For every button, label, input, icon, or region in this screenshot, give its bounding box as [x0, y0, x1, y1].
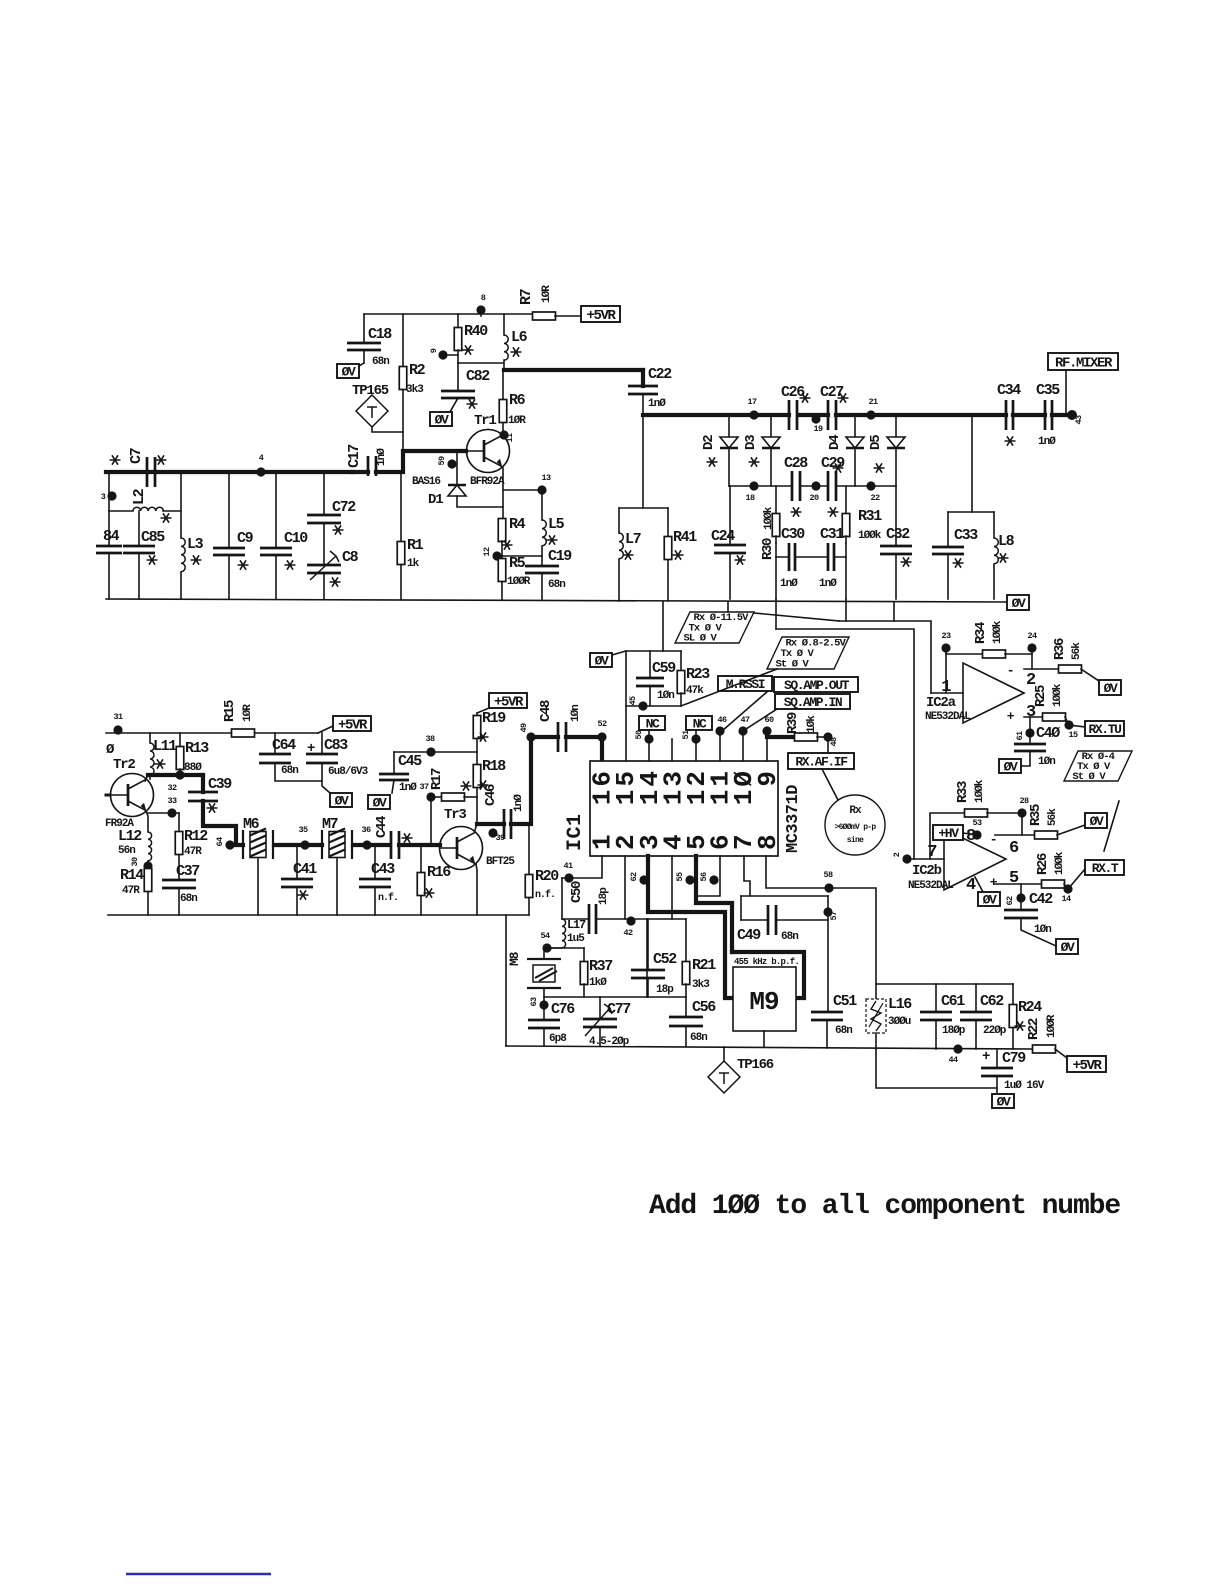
svg-text:D4: D4 [827, 435, 843, 450]
capacitor C48 10n (series, thick wire to IC1 pin16) [531, 700, 602, 761]
svg-text:R26: R26 [1035, 853, 1051, 875]
node 48 [823, 732, 839, 753]
svg-text:R24: R24 [1018, 999, 1042, 1016]
wire: mid +5VR rail [106, 726, 333, 733]
svg-text:R40: R40 [464, 323, 488, 340]
svg-text:1Øn: 1Øn [1038, 756, 1055, 768]
svg-text:L7: L7 [625, 531, 641, 548]
wire: C30/C31 line [776, 543, 846, 599]
inductor L2 [109, 472, 181, 523]
svg-text:3: 3 [101, 492, 106, 502]
svg-text:+HV: +HV [938, 826, 959, 841]
svg-text:C30: C30 [781, 526, 805, 543]
svg-text:12: 12 [482, 547, 492, 557]
NC box (pin 14) [639, 716, 665, 761]
node 8 [476, 293, 485, 316]
svg-text:C49: C49 [737, 927, 761, 944]
svg-text:IC1: IC1 [564, 813, 587, 851]
svg-text:+5VR: +5VR [338, 717, 368, 733]
wire: IC1 pin 3 (thick) [648, 856, 733, 998]
svg-text:13: 13 [541, 473, 551, 483]
svg-text:R2: R2 [409, 362, 426, 379]
resistor R22 100R [1026, 1014, 1067, 1058]
resistor R21 3k3 [682, 919, 716, 997]
resistor R13 [176, 733, 209, 775]
inductor L16 300u (shielded) [866, 996, 912, 1049]
wire: L16 bottom to 0V [876, 1049, 997, 1088]
NC box (pin 12) [686, 716, 712, 761]
node 43 [1067, 410, 1084, 425]
svg-text:23: 23 [941, 631, 951, 641]
svg-text:ØV: ØV [342, 365, 356, 380]
0V box (C42) [1056, 939, 1078, 955]
diode D4 [827, 415, 864, 486]
svg-text:ØV: ØV [1104, 681, 1118, 696]
svg-text:BFT25: BFT25 [486, 856, 515, 868]
svg-text:1Øn: 1Øn [1034, 924, 1051, 936]
node 37 [419, 782, 442, 845]
label L10 fragment [106, 742, 115, 758]
svg-text:SQ.AMP.OUT: SQ.AMP.OUT [784, 678, 850, 693]
node 2 [892, 852, 944, 863]
svg-text:38: 38 [425, 734, 435, 744]
svg-text:D3: D3 [743, 435, 759, 450]
wire: R31 column to IC2a input [839, 599, 931, 693]
resistor R19 [473, 710, 506, 752]
svg-text:64: 64 [215, 837, 225, 847]
svg-text:NE532DAL: NE532DAL [908, 880, 954, 892]
wire: IC1 pin 4 [671, 856, 673, 919]
wire: IC1 pin 2 [624, 856, 626, 919]
node 22 [866, 481, 880, 503]
svg-text:42: 42 [623, 928, 633, 938]
capacitor C39 (thick path to M6) [188, 775, 243, 845]
0V box (C45) [368, 795, 390, 811]
RX.T box (cut) [1085, 860, 1124, 876]
svg-text:1ØR: 1ØR [541, 285, 553, 303]
svg-text:24: 24 [1027, 631, 1037, 641]
resistor R16 [417, 845, 451, 915]
svg-text:3k3: 3k3 [692, 979, 710, 991]
svg-text:52: 52 [597, 719, 607, 729]
svg-text:1nØ: 1nØ [376, 448, 388, 466]
svg-text:8: 8 [481, 293, 486, 303]
svg-text:R14: R14 [120, 867, 144, 884]
wire: L16/C61/C62 top rail [876, 984, 1013, 1012]
capacitor C64 68n [259, 733, 322, 781]
svg-text:L5: L5 [548, 516, 565, 533]
svg-text:M6: M6 [243, 816, 260, 833]
svg-text:C50: C50 [569, 881, 585, 903]
wire: IC1 pin 5/6 (thick) [696, 856, 732, 952]
test point TP166 [708, 1047, 774, 1093]
svg-text:4: 4 [966, 876, 976, 895]
node 58 [823, 870, 833, 893]
svg-text:R12: R12 [184, 828, 208, 845]
SQ.AMP.OUT box [774, 677, 858, 693]
svg-text:RX.TU: RX.TU [1088, 722, 1121, 737]
capacitor C45 1n0 [379, 752, 422, 794]
transistor Tr1 BFR92A [467, 413, 510, 488]
svg-text:R34: R34 [973, 622, 989, 644]
node 56 [699, 872, 719, 885]
svg-text:62: 62 [1005, 896, 1015, 906]
wire: pin 13 stub [671, 739, 673, 761]
svg-text:1nØ: 1nØ [819, 578, 837, 590]
capacitor C35 (series) [1013, 382, 1072, 448]
svg-text:ØV: ØV [1004, 760, 1018, 775]
tank circuit L7 / R41 [619, 508, 697, 601]
wire: Tr2 collector junction (thick) [145, 775, 203, 781]
capacitor C59 10n [636, 651, 676, 706]
wire: IC1 pin 8 to L16 rail [766, 856, 876, 984]
svg-text:18: 18 [745, 493, 755, 503]
svg-text:63: 63 [529, 997, 539, 1007]
wire: IC2a pin 3 [1024, 716, 1043, 718]
wire: IC1 pin 1 to node 41 [562, 856, 602, 878]
node 30 [130, 857, 153, 871]
svg-text:50: 50 [634, 730, 644, 740]
0V box (R35) [1085, 813, 1107, 829]
svg-text:1ØØk: 1ØØk [1054, 851, 1066, 875]
capacitor C28 (series) [784, 455, 808, 501]
resistor R26 100k [1035, 851, 1085, 889]
svg-text:ØV: ØV [997, 1095, 1011, 1110]
parallelogram callout Rx 0.8-2.5V [681, 637, 849, 706]
node 44 [948, 1044, 962, 1065]
node 49 [519, 723, 536, 742]
node 53 [972, 818, 982, 840]
455 kHz b.p.f. outline (thick) [732, 952, 804, 998]
op-amp IC2a NE532DAL [925, 663, 1036, 724]
svg-text:D2: D2 [701, 435, 717, 450]
SQ.AMP.IN box [746, 694, 850, 729]
M.RSSI box [718, 676, 772, 731]
node 12 [482, 547, 542, 561]
svg-text:M9: M9 [749, 987, 779, 1017]
svg-text:1ØØk: 1ØØk [763, 506, 775, 530]
svg-text:1ØØR: 1ØØR [507, 576, 531, 588]
svg-text:-: - [1007, 663, 1013, 678]
node 64 [215, 837, 235, 850]
svg-text:68n: 68n [781, 931, 798, 943]
wire: bottom ground rail [506, 1046, 1033, 1049]
resistor R6 [499, 370, 526, 434]
resistor R40 [454, 314, 488, 363]
trimmer capacitor C77 4.5-20p [583, 997, 630, 1048]
svg-text:1Øn: 1Øn [570, 705, 582, 722]
0V box (C79) [992, 1094, 1014, 1110]
svg-text:47R: 47R [122, 885, 140, 897]
node 31 [113, 712, 123, 735]
capacitor C72 [307, 472, 356, 565]
resistor R31 100k [842, 486, 882, 543]
test point TP165 [352, 383, 403, 432]
wire: IC2b pin 6 [995, 834, 1035, 836]
RF.MIXER box [1048, 353, 1118, 415]
wire: mid-section ground rail [108, 914, 529, 916]
svg-text:ØV: ØV [435, 413, 449, 428]
svg-text:C45: C45 [398, 753, 422, 770]
svg-text:C29: C29 [821, 455, 845, 472]
svg-text:46: 46 [717, 715, 727, 725]
capacitor C17 (series) [346, 445, 466, 476]
svg-text:56n: 56n [118, 845, 135, 857]
capacitor C30 (series) [780, 526, 805, 590]
inductor L11 [150, 733, 177, 779]
svg-text:1kØ: 1kØ [589, 977, 607, 989]
wire: Tr3 emitter [476, 864, 477, 915]
0V box (C40) [999, 759, 1021, 775]
resistor R20 n.f. [525, 824, 559, 915]
resistor R33 100k (feedback) [930, 779, 1022, 859]
svg-text:88Ø: 88Ø [184, 762, 202, 774]
resistor R23 47k [677, 651, 710, 706]
node 24 [1027, 631, 1037, 669]
capacitor C44 (series) [374, 816, 440, 859]
wire: IC2b pin 5 [995, 883, 1042, 885]
node 45 [628, 696, 648, 711]
0V box (R36) [1099, 680, 1121, 696]
node 3 [101, 491, 117, 502]
svg-text:ØV: ØV [595, 654, 609, 669]
diagonal mark (cut callout) [1104, 801, 1119, 851]
svg-text:C17: C17 [346, 445, 363, 468]
+HV box and pin 8 [933, 825, 977, 846]
svg-text:68n: 68n [281, 765, 298, 777]
svg-text:L8: L8 [998, 533, 1015, 550]
wire: node23 to pin1 line [945, 654, 947, 693]
svg-text:47: 47 [740, 715, 750, 725]
op-amp IC2b NE532DAL [908, 829, 1019, 892]
svg-text:C61: C61 [941, 993, 965, 1010]
svg-text:1Øk: 1Øk [806, 715, 818, 733]
svg-text:62: 62 [629, 872, 639, 882]
svg-text:C8: C8 [342, 549, 359, 566]
node 51 [681, 730, 701, 744]
svg-text:BFR92A: BFR92A [470, 476, 505, 488]
svg-text:6: 6 [1009, 839, 1019, 858]
svg-text:455 kHz b.p.f.: 455 kHz b.p.f. [734, 957, 799, 967]
+5VR box (top) [581, 306, 620, 324]
node 4 [256, 453, 265, 477]
svg-text:30: 30 [130, 857, 140, 867]
svg-text:C83: C83 [324, 737, 348, 754]
wire: diode bias line [729, 485, 896, 487]
svg-text:C43: C43 [371, 861, 395, 878]
0V box (C64/C83) [330, 793, 352, 809]
svg-text:MC3371D: MC3371D [784, 785, 803, 853]
svg-text:1nØ: 1nØ [648, 398, 666, 410]
diode D3 [743, 415, 780, 486]
capacitor C7 (series in antenna line) [106, 448, 368, 487]
svg-text:C82: C82 [466, 368, 490, 385]
svg-text:C28: C28 [784, 455, 808, 472]
svg-text:n.f.: n.f. [378, 892, 398, 904]
svg-text:68n: 68n [690, 1032, 707, 1044]
capacitor C62 220p [960, 993, 1007, 1049]
svg-text:M8: M8 [507, 951, 522, 966]
svg-text:ØV: ØV [373, 796, 387, 811]
node 62b [1005, 893, 1026, 905]
wire: Tr2 emitter [146, 811, 148, 832]
svg-text:L17: L17 [567, 918, 586, 932]
svg-text:ØV: ØV [1012, 596, 1026, 611]
svg-text:1nØ: 1nØ [399, 782, 417, 794]
capacitor C83 6u8/6V3 electrolytic [306, 733, 369, 793]
0V box (pin 15 line) [590, 651, 626, 669]
svg-text:28: 28 [1019, 796, 1029, 806]
svg-text:1k: 1k [407, 558, 420, 570]
svg-text:C44: C44 [374, 816, 390, 838]
svg-text:53: 53 [972, 818, 982, 828]
svg-text:D1: D1 [428, 492, 443, 508]
resistor R37 1k0 [580, 948, 612, 997]
node 63 [529, 997, 549, 1010]
inductor L3 [181, 472, 204, 599]
node 55 [675, 872, 695, 885]
svg-text:TP166: TP166 [737, 1057, 774, 1073]
+5VR box (bottom) [1067, 1056, 1106, 1074]
+5VR box (Tr3) [477, 693, 527, 713]
wire: node 41 to L17/C50 [561, 878, 563, 919]
node 19 [811, 414, 823, 434]
svg-text:>6ØØmV p-p: >6ØØmV p-p [834, 823, 876, 832]
0V box (C82) [430, 412, 452, 428]
node 57 [823, 907, 839, 920]
svg-text:61: 61 [1015, 731, 1025, 741]
svg-text:56k: 56k [1071, 642, 1083, 660]
resistor R7 [518, 285, 581, 320]
node 36 [361, 825, 371, 850]
svg-text:3ØØu: 3ØØu [888, 1016, 911, 1028]
node 28 [1017, 796, 1029, 835]
svg-text:C31: C31 [820, 526, 844, 543]
svg-text:3k3: 3k3 [406, 384, 424, 396]
svg-text:C62: C62 [980, 993, 1004, 1010]
svg-text:1ØR: 1ØR [242, 704, 254, 722]
svg-text:St Ø V: St Ø V [1072, 771, 1106, 783]
svg-text:L3: L3 [187, 536, 204, 553]
svg-text:C24: C24 [711, 528, 735, 545]
svg-text:C22: C22 [648, 366, 672, 383]
svg-text:R6: R6 [509, 392, 526, 409]
svg-text:C48: C48 [538, 700, 554, 722]
svg-text:M7: M7 [322, 816, 338, 833]
svg-text:C79: C79 [1002, 1050, 1026, 1067]
svg-text:C39: C39 [208, 776, 232, 793]
wire: Tr1 emitter [503, 468, 542, 519]
svg-text:22Øp: 22Øp [983, 1025, 1007, 1037]
trimmer capacitor C8 [307, 549, 359, 599]
inductor L17 1u5 [544, 918, 586, 948]
node 11 [499, 430, 515, 442]
node 54 [540, 931, 551, 953]
capacitor C24 [711, 486, 746, 599]
pin 4 stub and 0V box [966, 876, 1000, 908]
wire: M8 enclosure [506, 915, 647, 1046]
svg-text:1nØ: 1nØ [1038, 436, 1056, 448]
inductor L12 56n [118, 828, 152, 869]
wire: IC2a output pin 2 [1024, 668, 1059, 670]
wire: +5VR rail (top) [364, 313, 533, 315]
node 61 [1015, 728, 1035, 740]
capacitor C34 (series) [997, 382, 1021, 446]
note: Add 100 to all component numbers [649, 1191, 1120, 1222]
capacitor C84 (cut at page edge) [96, 511, 122, 599]
svg-text:22: 22 [870, 493, 880, 503]
svg-text:R39: R39 [785, 712, 801, 734]
tank circuit C33 / L8 [932, 415, 1015, 599]
svg-text:C32: C32 [886, 526, 910, 543]
svg-text:BAS16: BAS16 [412, 476, 440, 488]
svg-text:+5VR: +5VR [1072, 1058, 1102, 1074]
svg-text:1ØØk: 1ØØk [1052, 683, 1064, 707]
svg-text:L6: L6 [511, 329, 528, 346]
svg-text:n.f.: n.f. [535, 889, 555, 901]
svg-text:C59: C59 [652, 660, 676, 677]
svg-text:47k: 47k [686, 685, 704, 697]
diode D1 BAS16 [412, 451, 503, 508]
svg-text:47R: 47R [184, 846, 202, 858]
capacitor C10 [260, 472, 308, 599]
wire: M7 to C44 (thick) [353, 843, 390, 847]
node 15 [1064, 720, 1078, 740]
svg-text:32: 32 [167, 783, 177, 793]
svg-text:18p: 18p [598, 887, 610, 905]
svg-text:Add 1ØØ to all component numbe: Add 1ØØ to all component numbe [649, 1191, 1120, 1222]
svg-text:6u8/6V3: 6u8/6V3 [328, 766, 369, 778]
blue underline mark [126, 1573, 271, 1575]
svg-text:C51: C51 [833, 993, 857, 1010]
svg-text:C19: C19 [548, 548, 572, 565]
svg-text:45: 45 [628, 696, 638, 706]
node 41 [563, 861, 573, 883]
svg-text:ØV: ØV [1061, 940, 1075, 955]
svg-text:56k: 56k [1047, 808, 1059, 826]
svg-text:49: 49 [519, 723, 529, 733]
svg-text:M.RSSI: M.RSSI [726, 677, 765, 692]
capacitor C49 68n (series) [737, 905, 828, 944]
svg-text:R13: R13 [185, 740, 209, 757]
svg-text:St Ø V: St Ø V [776, 659, 810, 671]
diode D5 [868, 415, 905, 486]
svg-text:9: 9 [429, 348, 439, 353]
svg-text:ØV: ØV [335, 794, 349, 809]
svg-text:R4: R4 [509, 516, 526, 533]
capacitor C31 (series) [819, 526, 844, 590]
svg-text:5: 5 [1009, 869, 1019, 888]
svg-text:R31: R31 [858, 508, 882, 525]
svg-text:Tr3: Tr3 [444, 807, 466, 823]
svg-text:R30: R30 [760, 538, 776, 560]
resistor R17 [429, 768, 477, 801]
capacitor C46 1n0 (series) [483, 737, 531, 839]
svg-text:15: 15 [1068, 730, 1078, 740]
svg-text:L2: L2 [131, 488, 148, 505]
ceramic filter M6 [243, 816, 273, 915]
wire: C32 column stub [893, 602, 895, 621]
node 13 [537, 473, 551, 495]
capacitor C43 n.f. [359, 845, 398, 915]
wire: R30 column to IC2b input [776, 599, 914, 859]
capacitor C32 [880, 486, 912, 599]
IC1 MC3371D [564, 761, 803, 856]
svg-text:R35: R35 [1028, 804, 1044, 826]
svg-text:R7: R7 [518, 289, 535, 305]
svg-text:36: 36 [361, 825, 371, 835]
svg-text:Tr2: Tr2 [113, 757, 135, 773]
